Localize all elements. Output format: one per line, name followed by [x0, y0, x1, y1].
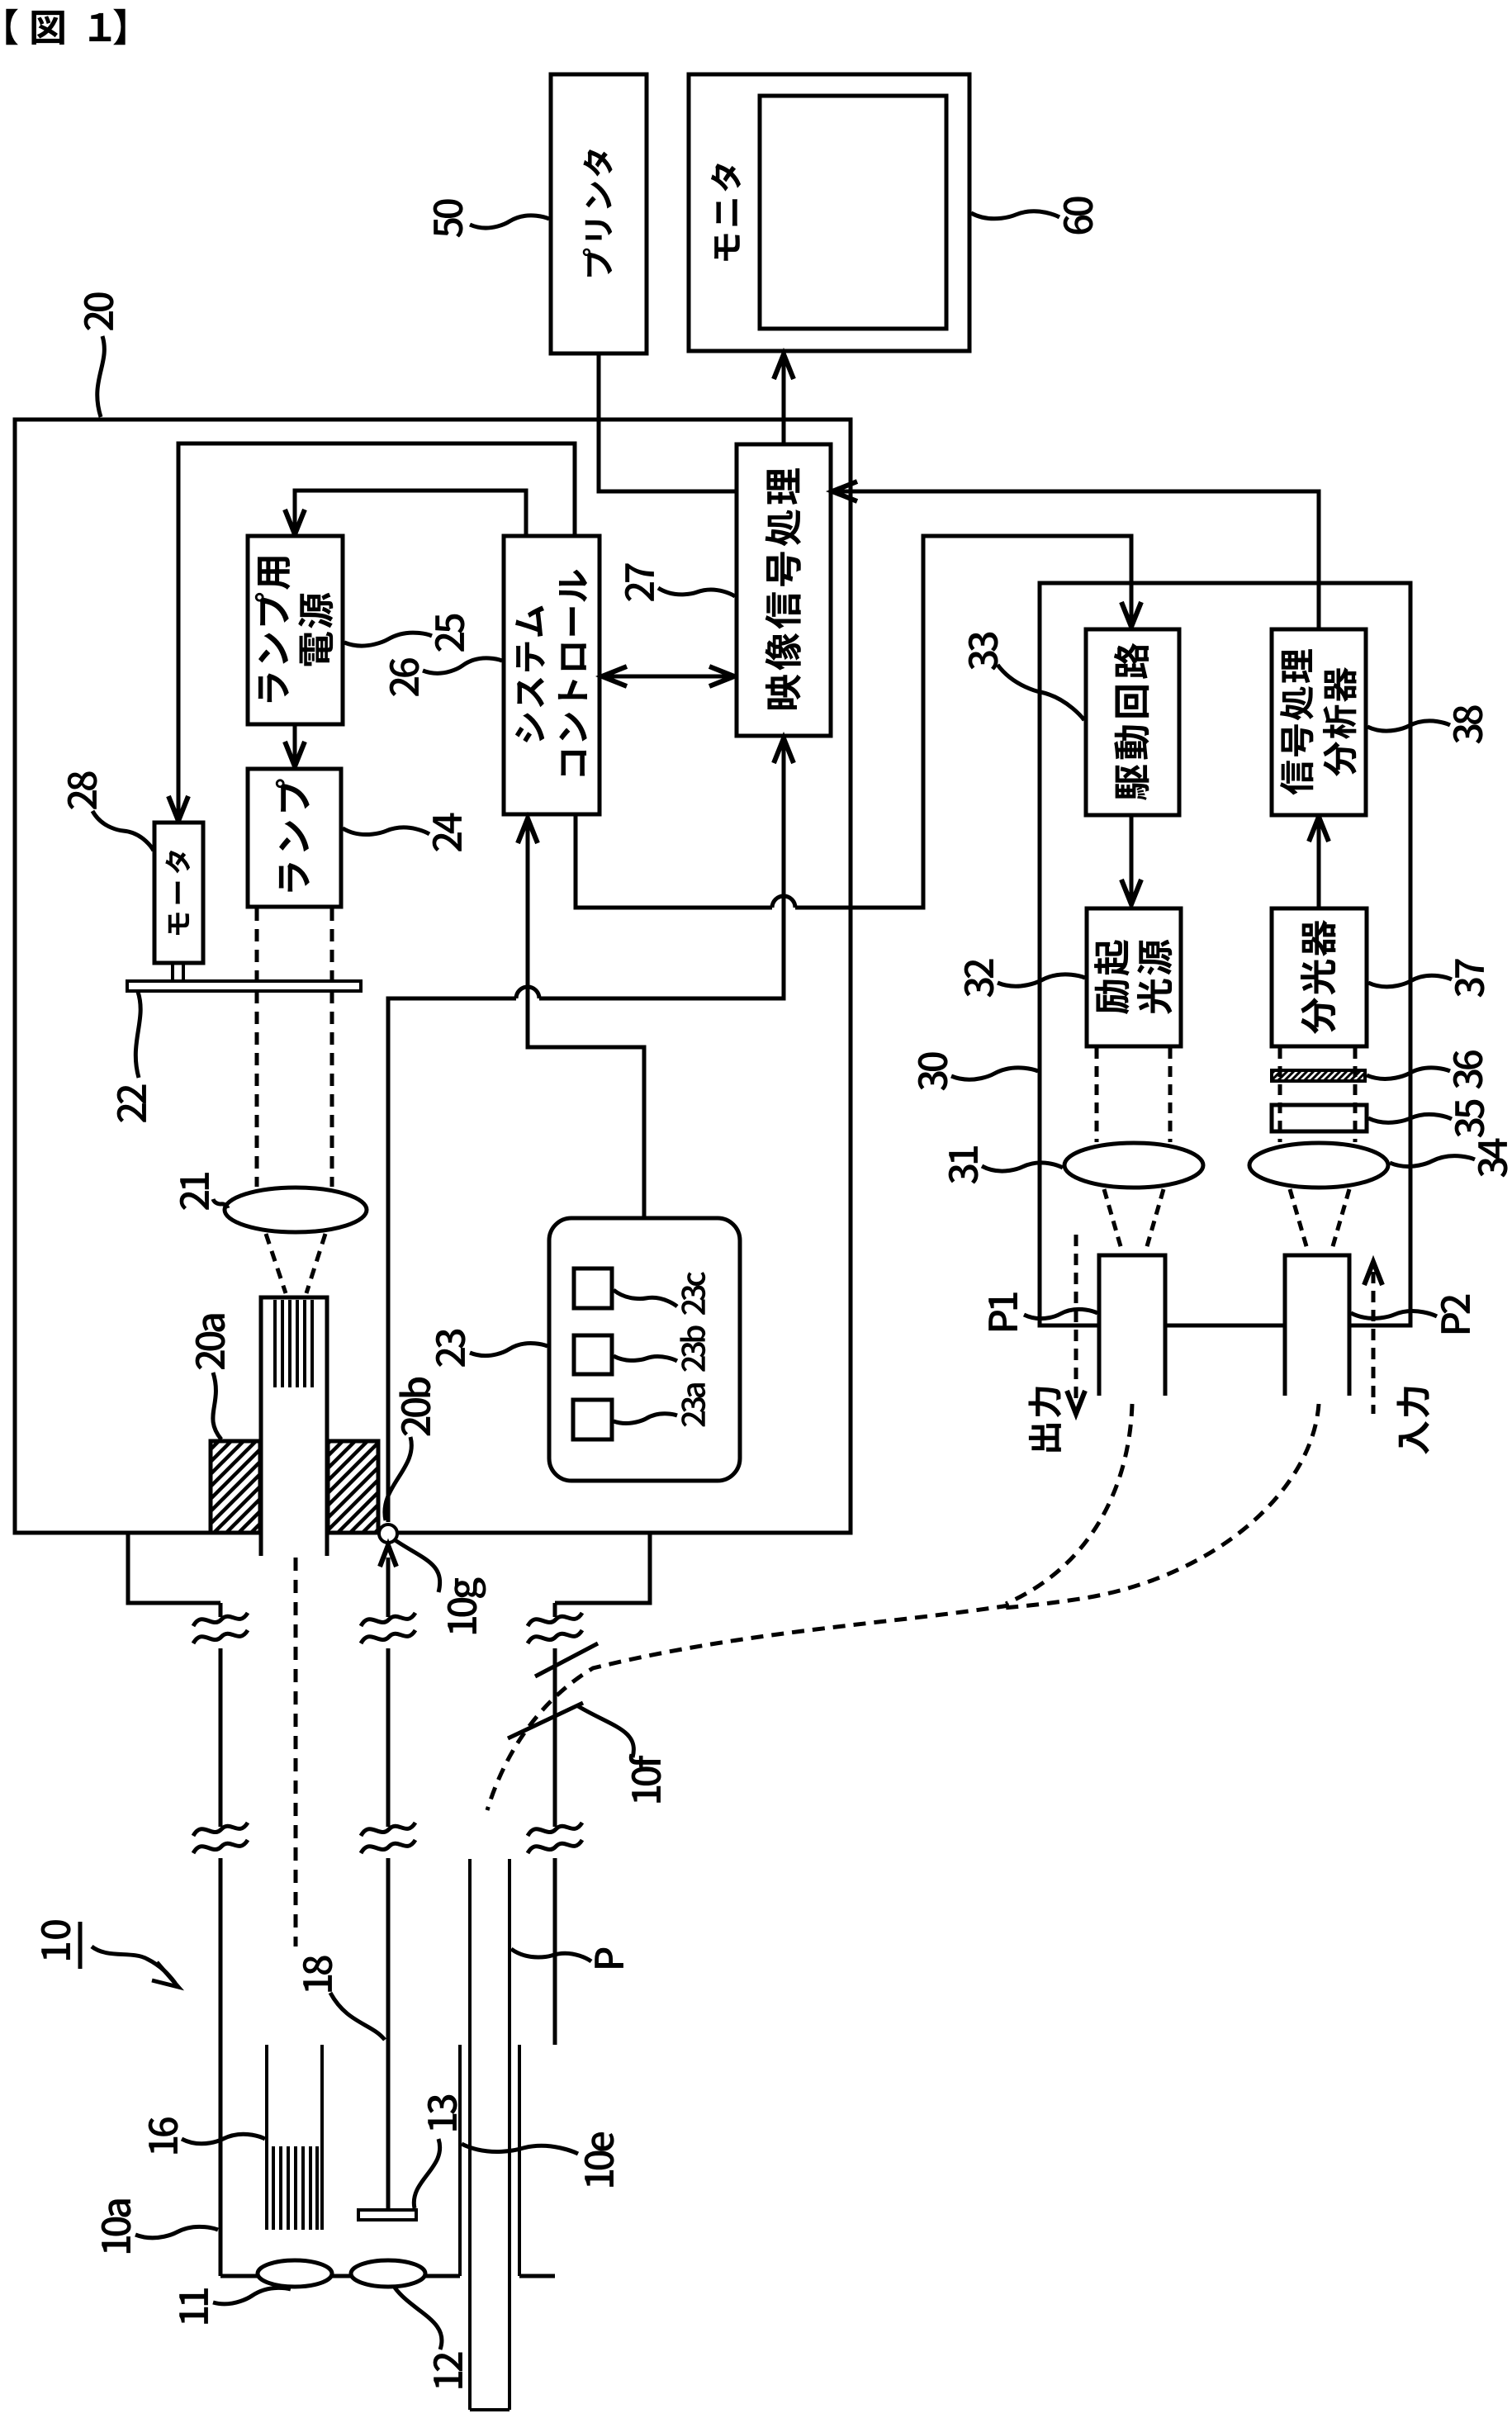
- leader 26: [423, 658, 502, 673]
- ref numeral P1: [988, 1292, 1017, 1330]
- switch 23b: [574, 1335, 612, 1374]
- leader 20: [97, 336, 105, 417]
- leader P1: [1024, 1309, 1097, 1318]
- label printer プリンタ: [583, 149, 613, 277]
- ref numerals 23a 23b 23c: [680, 1272, 705, 1427]
- leader 25: [344, 633, 432, 646]
- signal cable 18: [386, 1558, 391, 2210]
- ref numeral 27: [625, 563, 654, 601]
- dashed probe path from P1: [1006, 1404, 1132, 1604]
- label 駆動回路: [1114, 643, 1149, 800]
- box drive circuit 33: [1086, 629, 1179, 815]
- ref numeral 38: [1453, 705, 1483, 743]
- ref numeral 30: [918, 1052, 948, 1090]
- underline of 10: [78, 1922, 83, 1969]
- box system control 26: [504, 536, 600, 814]
- ref numeral 10 (underlined, track=-4.5): [41, 1920, 71, 1960]
- label monitor モニタ: [711, 164, 741, 261]
- leader 20b: [385, 1437, 411, 1520]
- objective lens 11: [258, 2260, 332, 2287]
- label 励起光源: [1094, 940, 1172, 1014]
- leader 21: [213, 1199, 228, 1208]
- objective lens 12: [351, 2260, 425, 2287]
- connector ferrule hatched blocks: [211, 1441, 260, 1533]
- monitor screen: [760, 96, 946, 329]
- leader 10e: [462, 2144, 578, 2154]
- leader 36: [1367, 1068, 1450, 1079]
- leader 20a: [213, 1373, 221, 1439]
- ref numeral 22: [117, 1085, 146, 1123]
- label input 入力: [1396, 1387, 1429, 1453]
- wire spectrometer to analyzer (arrow): [1317, 818, 1321, 908]
- ref numeral 37: [1455, 959, 1485, 997]
- scope outer wall left: [219, 1603, 223, 2276]
- leader 35: [1368, 1114, 1452, 1122]
- lens 31: [1064, 1143, 1203, 1188]
- ref numeral 28: [68, 771, 97, 809]
- imaging unit 13: [358, 2210, 416, 2220]
- instrument channel 10e: [460, 2045, 519, 2276]
- leader 23: [470, 1344, 547, 1356]
- output dashed arrow: [1074, 1235, 1078, 1404]
- wire sysctl to drive circuit: [576, 814, 772, 908]
- connector neck right: [555, 1533, 650, 1603]
- spectrometer dashed rays: [1278, 1048, 1282, 1142]
- wire video-proc to printer: [599, 353, 735, 491]
- ref numeral 26: [390, 658, 419, 696]
- leader 31: [982, 1163, 1063, 1171]
- ref numeral 20a: [196, 1314, 225, 1369]
- leader 10a: [135, 2226, 218, 2237]
- leader 60: [971, 211, 1059, 219]
- filter 35: [1272, 1105, 1367, 1131]
- label モータ: [165, 851, 190, 935]
- leader 24: [343, 827, 429, 835]
- fiber bundle 20a: [261, 1297, 327, 1556]
- box excitation light source 32: [1087, 908, 1181, 1046]
- ref numeral 23: [436, 1330, 466, 1367]
- leader 37: [1368, 975, 1452, 987]
- ref numeral 11: [179, 2288, 208, 2324]
- excitation dashed rays: [1095, 1048, 1099, 1142]
- label システムコントロール: [515, 570, 587, 776]
- leader 10g: [394, 1539, 440, 1592]
- ref numeral 12: [434, 2353, 462, 2388]
- label ランプ用電源: [255, 557, 333, 702]
- wire sysctl to motor: [178, 443, 575, 818]
- port tube P2: [1285, 1255, 1349, 1396]
- leader 12: [395, 2288, 442, 2350]
- box 30 spectroscopy unit: [1040, 583, 1410, 1325]
- ref numeral 36: [1453, 1050, 1483, 1088]
- converging rays P1: [1104, 1189, 1122, 1252]
- ref numeral 35: [1455, 1100, 1485, 1138]
- light guide end 16: [267, 2045, 322, 2230]
- ref numeral 50: [434, 199, 463, 237]
- ref numeral 18: [303, 1956, 333, 1991]
- box 23 scope switches: [549, 1218, 740, 1481]
- arrow drive to excitation source: [1130, 815, 1134, 902]
- switch 23a: [574, 1268, 612, 1308]
- leader 34: [1390, 1156, 1475, 1167]
- leader 38: [1367, 721, 1450, 731]
- ref numeral P: [595, 1948, 623, 1968]
- ref numeral 34: [1478, 1139, 1508, 1178]
- box signal processing analyzer 38: [1272, 629, 1366, 815]
- ref numeral 10g: [448, 1578, 486, 1634]
- lamp light dashed rays: [255, 908, 259, 1187]
- ref numeral 16: [149, 2117, 178, 2154]
- leader 22: [135, 992, 140, 1078]
- input dashed arrow: [1372, 1272, 1376, 1414]
- figure title 【図1】: [6, 9, 125, 45]
- ref numeral 33: [969, 633, 998, 671]
- dashed probe path merged to port 10f: [487, 1605, 1009, 1810]
- leader 23a: [614, 1290, 677, 1306]
- motor shaft: [171, 963, 174, 981]
- leader 13: [414, 2139, 439, 2208]
- leader P2: [1351, 1311, 1437, 1319]
- converging rays to fiber: [266, 1234, 286, 1293]
- double arrow sysctl and video-proc: [605, 675, 731, 679]
- ref numeral 20b: [399, 1377, 430, 1436]
- probe P in channel: [470, 1859, 510, 2410]
- dashed probe path from P2: [1003, 1404, 1319, 1608]
- connector neck left: [128, 1533, 220, 1603]
- leader 18: [330, 1993, 385, 2040]
- switch 23c: [573, 1400, 612, 1439]
- wire scope switches 23 to sysctl: [528, 821, 644, 1218]
- ref numeral 25: [435, 614, 465, 652]
- leader 11: [213, 2288, 291, 2303]
- leader 27: [658, 588, 735, 596]
- chopper plate 22: [127, 981, 361, 991]
- leader 50: [470, 216, 549, 228]
- ref numeral 10f: [629, 1754, 661, 1803]
- wire CCD signal to video-proc: [388, 998, 516, 1522]
- filter 36 (hatched): [1272, 1070, 1365, 1081]
- box 20 processor housing: [15, 420, 851, 1533]
- ref numeral 21: [180, 1173, 209, 1210]
- scope tip bottom: [220, 2274, 555, 2278]
- port tube P1: [1099, 1255, 1165, 1396]
- leader 23c: [614, 1414, 677, 1424]
- ref numeral 31: [949, 1146, 979, 1183]
- arrow lamp-psu to lamp: [293, 724, 297, 762]
- leader 28: [92, 811, 154, 851]
- leader 33: [998, 665, 1084, 720]
- ref numeral 32: [965, 960, 994, 998]
- label ランプ: [276, 779, 310, 891]
- box lamp power supply 25: [248, 536, 343, 724]
- leader P: [511, 1949, 591, 1961]
- box monitor 60: [689, 74, 969, 351]
- leader 23b: [614, 1356, 677, 1361]
- converging rays P2: [1290, 1189, 1308, 1252]
- box motor 28: [154, 823, 203, 963]
- wire analyzer to video-proc (arrow): [832, 491, 1319, 628]
- ref numeral 13: [428, 2095, 457, 2131]
- scope outer wall right / channel: [553, 1603, 557, 2045]
- label 映像信号処理: [765, 468, 801, 709]
- box spectrometer 37: [1272, 908, 1367, 1046]
- box video signal processing 27: [737, 444, 831, 736]
- wire sysctl to lamp-psu: [295, 491, 526, 536]
- connector node 10g: [379, 1524, 397, 1543]
- leader 30: [951, 1068, 1038, 1079]
- forceps port marks 10f: [535, 1643, 598, 1676]
- leader 10f: [578, 1706, 633, 1757]
- label 信号処理分析器: [1280, 649, 1357, 794]
- box lamp 24: [248, 769, 341, 907]
- ref numeral 10e: [585, 2132, 614, 2187]
- label output 出力: [1028, 1387, 1061, 1451]
- ref numeral 60: [1064, 197, 1093, 234]
- ref numeral 20: [84, 292, 114, 330]
- arrow of 10: [92, 1946, 175, 1983]
- illumination dashed centerline: [294, 1558, 298, 1946]
- lens 21: [225, 1188, 367, 1232]
- ref numeral 10a: [102, 2199, 131, 2253]
- leader 32: [998, 974, 1085, 986]
- leader 16: [182, 2134, 265, 2144]
- wire video-proc to monitor (arrow): [782, 357, 786, 444]
- box printer 50: [551, 74, 647, 353]
- ref numeral 24: [433, 813, 462, 852]
- lens 34: [1249, 1143, 1388, 1188]
- label 分光器: [1301, 920, 1336, 1034]
- ref numeral P2: [1441, 1295, 1470, 1333]
- arrow into node 10g: [380, 1545, 396, 1567]
